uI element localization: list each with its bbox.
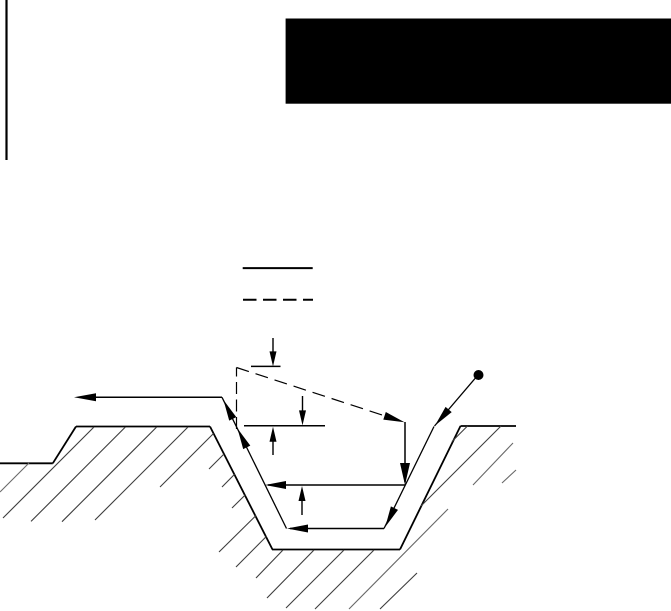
start point dot <box>474 370 484 380</box>
hatch under top-left surface 3 <box>62 427 157 522</box>
arrow: down right slope <box>385 506 398 527</box>
workpiece profile: groove left slope <box>210 427 273 550</box>
hatch tick on left slope 1 <box>160 434 214 488</box>
dimension tick line lower <box>244 425 325 427</box>
arrow: d1 down <box>270 351 277 366</box>
arrow: first bottom cut left <box>265 481 286 489</box>
toolpath: retract line leftward at y=397 <box>78 396 222 398</box>
black redaction bar (title block) <box>286 19 671 104</box>
arrow: rapid arrive <box>383 412 404 422</box>
hatch right of groove 3 <box>473 443 513 485</box>
workpiece profile: groove bottom <box>272 549 400 551</box>
rapid traverse: dashed vertical retract <box>236 368 238 430</box>
hatch tick on left slope 6 <box>236 536 267 567</box>
hatch tick on left slope 4 <box>232 495 245 508</box>
legend: solid line sample (cutting feed) <box>243 267 313 269</box>
arrow: retract left <box>74 393 96 401</box>
workpiece profile: chamfer <box>53 427 76 464</box>
hatch tick on left slope 2 <box>209 454 224 469</box>
hatch under top-left surface 2 <box>31 427 125 521</box>
hatch under groove bottom 1 <box>256 550 283 578</box>
arrow: plunge down (large) <box>400 463 410 485</box>
hatch right of groove 2 (long) <box>421 426 501 506</box>
hatch right of groove 4 <box>502 470 516 483</box>
hatch under top-left surface 4 <box>95 427 188 520</box>
hatch under groove bottom 4 <box>315 550 374 609</box>
workpiece profile: groove right slope <box>400 426 461 550</box>
dimension d4: up arrow below first bottom cut <box>299 486 306 501</box>
toolpath: first bottom cut at y=485 <box>268 484 405 486</box>
hatch under groove bottom 3 <box>286 550 344 608</box>
arrow: second bottom cut left <box>287 525 308 533</box>
hatch lower right short <box>380 573 417 609</box>
workpiece profile: top-right surface <box>461 425 517 427</box>
arrow: d2 down <box>299 410 306 425</box>
hatch lower right long <box>349 509 448 609</box>
hatch tick on left slope 5 <box>219 516 256 553</box>
toolpath: cut down along right slope <box>384 427 434 529</box>
hatch tick on left slope 3 <box>222 474 235 487</box>
toolpath: cut up along left slope <box>222 397 287 528</box>
toolpath: second bottom cut at y=528 <box>290 528 384 530</box>
dimension d3: up arrow below lower tick line <box>270 427 277 442</box>
arrow: up left slope (upper) <box>224 400 237 421</box>
left margin vertical rule <box>5 0 7 160</box>
toolpath: approach from start point <box>435 375 479 426</box>
legend: dashed line sample (rapid traverse) <box>243 299 313 301</box>
hatch under top-left surface 1 <box>3 427 94 518</box>
workpiece profile: top-left surface <box>76 426 210 428</box>
dimension tick line upper <box>251 365 281 367</box>
dimension d2: shaft above lower tick line <box>302 396 304 411</box>
rapid traverse: dashed diagonal positioning <box>237 368 400 421</box>
dimension d1: shaft above upper tick <box>272 338 274 352</box>
workpiece profile: left step surface <box>0 462 53 464</box>
arrow: up left slope (lower) <box>238 429 251 450</box>
toolpath: plunge down at x=405 <box>404 422 406 482</box>
hatch under left step (gray) <box>0 463 29 492</box>
hatch right of groove 1 <box>452 426 468 442</box>
hatch under groove bottom 2 <box>267 550 314 598</box>
arrow: approach down-left <box>435 407 452 426</box>
